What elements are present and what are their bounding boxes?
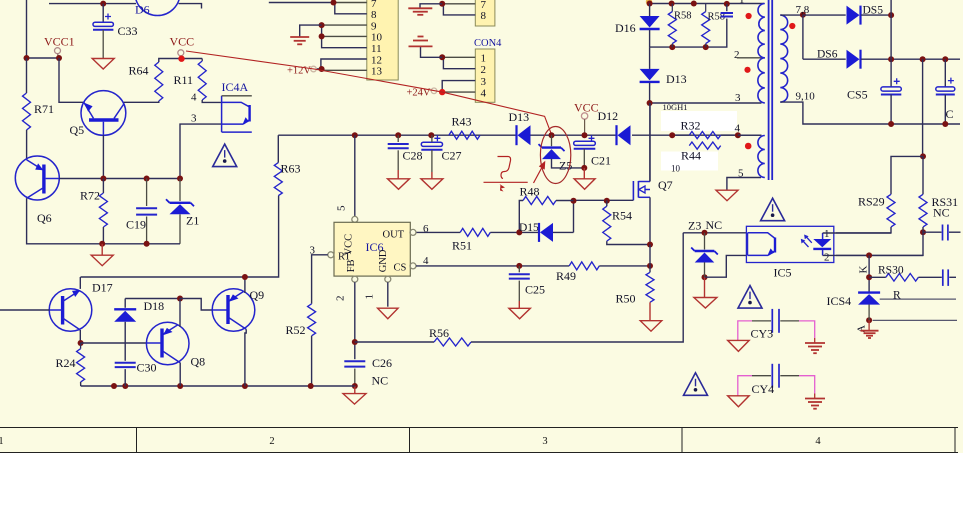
op-amp IC5 phototransistor [748, 233, 776, 256]
warning triangle above IC5 [761, 198, 785, 221]
ground stem A [868, 320, 870, 331]
wire pin4 [738, 134, 762, 136]
transistor Q8 [146, 322, 189, 365]
red arrow annotation [534, 161, 546, 183]
wire IC5 pin2 [823, 254, 923, 256]
junction pin2 K node [866, 252, 872, 258]
junction Z3 [702, 230, 708, 236]
svg-text:R48: R48 [520, 185, 540, 199]
junction gate R54 [604, 198, 610, 204]
wire K column [868, 255, 870, 291]
svg-text:Q5: Q5 [70, 123, 85, 137]
wire Z3 to IC5 emitter [705, 255, 747, 277]
resistor R49 [569, 262, 599, 270]
wire D13b down to Q7 drain [649, 103, 651, 182]
svg-text:D16: D16 [615, 21, 636, 35]
ground under C28 [388, 179, 410, 190]
ground under C26 [343, 394, 366, 405]
wire D15 to R48 right [553, 231, 574, 233]
wire pin8 J2 [443, 4, 475, 15]
wire C27 bottom [431, 150, 433, 172]
junction R32 right [735, 132, 741, 138]
ground under Q5 base node [91, 255, 113, 266]
power port +12V circle [311, 66, 317, 72]
svg-text:Q8: Q8 [191, 355, 206, 369]
svg-text:R72: R72 [80, 189, 100, 203]
warning triangle CY3 [738, 286, 762, 309]
wire D17 base to left edge [0, 309, 50, 311]
wire left rail top [26, 0, 28, 58]
wire Z3 bottom lead [704, 262, 706, 277]
wire D16 bottom lead [649, 30, 651, 47]
wire Q9 emitter up [244, 277, 246, 293]
red mark annotation [500, 184, 506, 192]
wire Q5 base down [102, 135, 104, 179]
ground under Z3 [694, 298, 717, 309]
wire C28 top [397, 135, 399, 142]
zener Z3 [691, 248, 718, 263]
ground stem C21 [583, 168, 585, 179]
resistor R56 [434, 338, 471, 346]
junction DS6 C2 [942, 56, 948, 62]
wire R58a top lead [671, 4, 673, 12]
wire RS29 bottom [836, 227, 891, 233]
junction DS5 out [888, 12, 894, 18]
wire Z3 top lead [704, 233, 706, 250]
power ground symbol CON4 (inverted) [409, 37, 433, 47]
resistor R54 [603, 206, 611, 241]
wire C28 bottom [397, 150, 399, 170]
wire FB to R56 [355, 341, 434, 343]
svg-text:VCC: VCC [170, 35, 195, 49]
svg-text:3: 3 [735, 92, 741, 104]
svg-text:R24: R24 [56, 356, 76, 370]
wire cap bottom lead [650, 19, 727, 48]
junction Z1 top [177, 176, 183, 182]
svg-text:R71: R71 [34, 102, 54, 116]
wire Q9 collector down [245, 329, 246, 386]
wire C27 top [431, 135, 433, 142]
wire Q8 collector down [179, 363, 181, 386]
yellow junction dot [646, 0, 652, 5]
connector J2 box [475, 0, 495, 26]
wire Z5 bottom [552, 159, 585, 168]
resistor R48 [523, 197, 556, 205]
wire R58b top lead [705, 4, 707, 12]
junction R48 D15 [516, 229, 522, 235]
junction ICS4 bottom [866, 317, 872, 323]
pin 4 lead CON4 [442, 91, 475, 93]
wire pin11 J1 [322, 25, 367, 48]
wire Q5 collector to R64 [124, 101, 159, 102]
wire IC5 pin1 [823, 232, 891, 234]
svg-text:DS6: DS6 [817, 49, 838, 61]
capacitor C26 [344, 361, 365, 366]
wire CS5 stem [890, 59, 892, 87]
ground under C33 [92, 59, 114, 70]
svg-text:RS30: RS30 [878, 265, 904, 277]
svg-text:C27: C27 [442, 149, 462, 163]
pin 7 lead J2 [442, 3, 475, 5]
transistor Q9 [212, 289, 255, 332]
resistor R63 [274, 163, 282, 196]
wire C33 to ground [102, 30, 104, 59]
wire CY3 left magenta [738, 321, 771, 341]
ground stem C26 [354, 386, 356, 394]
svg-text:C26: C26 [372, 356, 392, 370]
ground under C25 [509, 308, 530, 319]
resistor R71 [23, 93, 31, 130]
svg-text:C19: C19 [126, 218, 146, 232]
wire CY3 right magenta [780, 321, 814, 343]
wire bottom rail [81, 385, 355, 387]
pin 10 lead J1 [322, 35, 367, 37]
wire RS30 left [869, 276, 886, 278]
svg-text:A: A [856, 325, 868, 333]
junction Z3 bottom [702, 274, 708, 280]
ground stem Z3 [704, 277, 706, 297]
transistor D17 [49, 289, 92, 332]
wire CS row [416, 265, 569, 267]
junction Q9 emitter rail [242, 274, 248, 280]
wire R49 right [599, 265, 650, 267]
junction R58a top [669, 1, 675, 7]
power port +24V circle [431, 88, 437, 94]
red power net line [186, 51, 552, 135]
wire main rail right [632, 134, 762, 136]
junction R58b bottom [703, 44, 709, 50]
wire R72 bottom [102, 227, 104, 244]
wire RS31 bottom lead [922, 227, 924, 232]
junction pin9 bus [319, 22, 325, 28]
junction RS30 [866, 274, 872, 280]
svg-text:5: 5 [336, 205, 348, 211]
junction pins 7-8 [331, 0, 337, 6]
svg-text:1: 1 [0, 436, 4, 447]
ground stem C25 [518, 301, 520, 308]
junction C2 bottom [942, 121, 948, 127]
earth ground A [861, 331, 879, 338]
junction RS31 bottom [920, 229, 926, 235]
junction sec top [800, 12, 806, 18]
junction R58b top [691, 1, 697, 7]
capacitor CY3 [772, 309, 779, 333]
wire R11 to IC4A pin4 [202, 100, 221, 102]
svg-text:Q9: Q9 [250, 288, 265, 302]
wire base node [81, 342, 147, 344]
wire C19 bottom [146, 217, 148, 244]
white patch 1 [661, 111, 737, 131]
wire C19 top [146, 179, 148, 207]
pin 13 lead J1 [322, 69, 367, 71]
junction rail Q9 [242, 383, 248, 389]
pin circle IC6 CS [410, 263, 416, 269]
ground stem C27 [431, 172, 433, 179]
wire RS31 to pin2 row [836, 232, 923, 255]
wire DS6 out [861, 58, 960, 60]
op-amp IC6 box [334, 222, 410, 276]
svg-text:R54: R54 [612, 209, 632, 223]
wire D18 node [125, 298, 180, 300]
pin 9 lead J1 [322, 24, 367, 26]
capacitor C21 [574, 135, 596, 149]
svg-text:C21: C21 [591, 154, 611, 168]
junction CON4 top [439, 54, 445, 60]
svg-text:12: 12 [371, 54, 382, 66]
junction Z5 top [549, 132, 555, 138]
wire CS5 vert [890, 15, 892, 59]
R32 R44 right bracket [721, 134, 738, 136]
svg-text:NC: NC [372, 374, 389, 388]
ground stem R72 [101, 244, 103, 255]
junction VCC1 [56, 55, 62, 61]
wire R56 to right riser [471, 233, 683, 342]
svg-text:R44: R44 [681, 149, 701, 163]
svg-text:R32: R32 [681, 119, 701, 133]
wire OUT to R51 [416, 231, 460, 233]
earth ground CY4 right [805, 399, 825, 409]
power port VCC1 circle [55, 48, 61, 54]
wire R54 bottom [607, 241, 650, 244]
resistor R72 [99, 193, 107, 227]
svg-text:C25: C25 [525, 283, 545, 297]
diode DS6 [847, 50, 861, 69]
svg-text:2: 2 [824, 252, 830, 264]
wire R48 right vertical [573, 200, 575, 232]
capacitor C28 [388, 144, 409, 148]
wire R24 bottom [80, 382, 82, 386]
svg-text:9,10: 9,10 [796, 91, 816, 103]
wire bottom rail Q6 [102, 243, 180, 245]
junction bottom rail 2 [144, 241, 150, 247]
junction C21 bottom [581, 165, 587, 171]
wire R58b bottom [705, 44, 707, 48]
capacitor C33 [93, 14, 113, 30]
capacitor at RS31 [923, 225, 961, 241]
resistor RS29 [887, 194, 895, 227]
wire D13b to pin3 [650, 83, 762, 103]
pin circle IC6 RT [328, 252, 334, 258]
svg-text:4: 4 [191, 92, 197, 104]
svg-text:3: 3 [481, 76, 487, 88]
svg-text:R49: R49 [556, 269, 576, 283]
wire sec bottom [780, 102, 960, 124]
wire cap top lead [726, 4, 728, 11]
svg-text:3: 3 [191, 113, 197, 125]
svg-text:11: 11 [371, 43, 382, 55]
junction bottom rail 1 [99, 241, 105, 247]
wire R58a bottom [671, 44, 673, 48]
svg-text:10: 10 [371, 32, 383, 44]
wire CY4 left magenta [738, 376, 771, 396]
svg-text:C33: C33 [118, 24, 138, 38]
svg-text:R51: R51 [452, 239, 472, 253]
capacitor CS5 [881, 78, 901, 94]
transformer primary winding 1-2 [758, 4, 765, 58]
junction rail x114 [111, 383, 117, 389]
white patch 2 [661, 152, 718, 171]
svg-text:R63: R63 [281, 162, 301, 176]
capacitor CY4 [772, 364, 779, 388]
svg-text:6: 6 [423, 223, 429, 235]
svg-text:8: 8 [371, 9, 377, 21]
wire pin12 J1 [321, 59, 367, 69]
resistor R52 [308, 304, 316, 336]
svg-text:2: 2 [734, 49, 740, 61]
svg-text:D17: D17 [92, 281, 113, 295]
capacitor C30 [115, 363, 136, 367]
ground IC6 GND pin [378, 308, 399, 319]
wire CS5 bottom [890, 95, 892, 125]
transformer core [769, 0, 773, 180]
wire R line [880, 298, 956, 300]
svg-text:GND: GND [378, 249, 389, 272]
svg-text:Z3: Z3 [688, 219, 701, 233]
capacitor C19 [136, 208, 157, 214]
svg-text:RS29: RS29 [858, 195, 885, 209]
diode D13 vertical [640, 69, 660, 82]
wire Q6 collector down [27, 198, 103, 244]
capacitor C right [936, 78, 955, 95]
polarity dot pin1 [746, 13, 752, 19]
polarity dot pin4 [745, 143, 752, 150]
wire R63 bottom to left [81, 196, 279, 277]
svg-text:NC: NC [933, 206, 950, 220]
wire RS31 top lead [922, 156, 924, 194]
ground under C21 [574, 179, 595, 190]
junction Q8 emitter node [177, 296, 183, 302]
power port VCC circle [178, 50, 184, 56]
wire pins7-8 left [269, 2, 334, 4]
wire RT to R52 [312, 255, 328, 304]
ground under C27 [421, 179, 443, 190]
resistor R11 [198, 61, 206, 100]
wire J2 to ground [420, 4, 442, 9]
wire Z1 top [179, 179, 181, 202]
wire DS6 row [803, 58, 846, 60]
svg-text:CON4: CON4 [474, 38, 502, 49]
capacitor C25 [509, 274, 530, 278]
wire top rail right [648, 3, 764, 5]
wire D16 top lead [649, 4, 651, 17]
svg-text:2: 2 [335, 296, 347, 302]
svg-text:9: 9 [371, 20, 377, 32]
junction R58a bottom [669, 44, 675, 50]
junction C25 [516, 263, 522, 269]
svg-text:4: 4 [481, 87, 487, 99]
wire R24 top lead [80, 343, 82, 349]
diode D18 [114, 309, 136, 322]
wire pin13 to +12V [317, 69, 322, 70]
junction C21 top [582, 132, 588, 138]
svg-text:2: 2 [481, 64, 487, 76]
diode D13 [517, 125, 531, 145]
wire bus to ground [300, 25, 322, 37]
svg-text:ICS4: ICS4 [827, 294, 852, 308]
R32 R44 left bracket [672, 134, 689, 136]
wire C30 bottom [124, 369, 126, 386]
wire D13b column [649, 47, 651, 69]
junction rail R52 [308, 383, 314, 389]
transistor Q7 mosfet [633, 181, 650, 200]
wire FB down [354, 282, 356, 359]
wire R51 to D15 [490, 231, 539, 233]
warning triangle near IC4A [213, 144, 237, 167]
resistor R43 [449, 131, 480, 139]
op-amp IC5 box [746, 226, 833, 262]
connector CON4 box [475, 49, 495, 102]
svg-text:4: 4 [815, 436, 821, 447]
wire R72 top [102, 179, 104, 194]
ground CY3 left [728, 340, 750, 351]
svg-text:7,8: 7,8 [796, 4, 810, 16]
svg-text:VCC1: VCC1 [44, 35, 75, 49]
junction rail IC6 pin5 [352, 132, 358, 138]
wire R48 right lead [556, 200, 574, 202]
svg-text:FB: FB [346, 259, 357, 272]
transistor Q5 [81, 91, 126, 136]
svg-text:K: K [858, 266, 870, 274]
junction C19 top [144, 176, 150, 182]
wire DS5 row [803, 14, 846, 16]
junction C33 top [100, 1, 106, 7]
junction rail C28 [395, 132, 401, 138]
wire Q7 drain [649, 103, 651, 182]
diode DS5 [847, 6, 861, 25]
wire pin5 to ground [727, 178, 761, 190]
svg-text:2: 2 [269, 436, 274, 447]
junction rail C27 [428, 132, 434, 138]
svg-text:10: 10 [671, 164, 681, 174]
red junction VCC [178, 56, 184, 62]
svg-text:1: 1 [364, 294, 376, 300]
svg-text:D12: D12 [598, 109, 619, 123]
wire C2 stem [944, 59, 946, 87]
wire C26 bottom [354, 369, 356, 386]
wire D6 right [179, 4, 202, 9]
wire source to R50 [649, 245, 651, 273]
wire pin2 CON4 [443, 57, 475, 68]
resistor R50 [646, 272, 654, 302]
transistor D6 (partial at top edge) [135, 0, 180, 16]
wire main rail mid [531, 134, 617, 136]
power VCC1 stem [57, 54, 59, 58]
junction left rail [24, 55, 30, 61]
junction CS5 bottom [888, 121, 894, 127]
power port VCC2 circle [581, 113, 587, 119]
svg-text:1: 1 [739, 0, 745, 6]
ground under pin5 [716, 190, 738, 201]
pin circle IC6 GND [385, 276, 391, 282]
svg-text:OUT: OUT [383, 229, 405, 240]
junction RS29 RS31 [920, 153, 926, 159]
wire emitter rail [79, 277, 81, 289]
wire R54 top [606, 200, 608, 206]
wire D17 collector [79, 330, 81, 343]
junction FB node [352, 339, 358, 345]
wire Q7 source [649, 197, 651, 244]
diode D15 [539, 223, 553, 242]
pin circle IC6 pin5 [352, 216, 358, 222]
junction J2 pins [439, 1, 445, 7]
resistor R24 [77, 349, 85, 382]
svg-text:CS5: CS5 [847, 88, 868, 102]
capacitor at RS30 [918, 269, 956, 286]
junction DS6 col [920, 56, 926, 62]
junction cap top [724, 1, 730, 7]
ground under R50 [640, 321, 662, 332]
wire R11 top lead [201, 59, 203, 62]
